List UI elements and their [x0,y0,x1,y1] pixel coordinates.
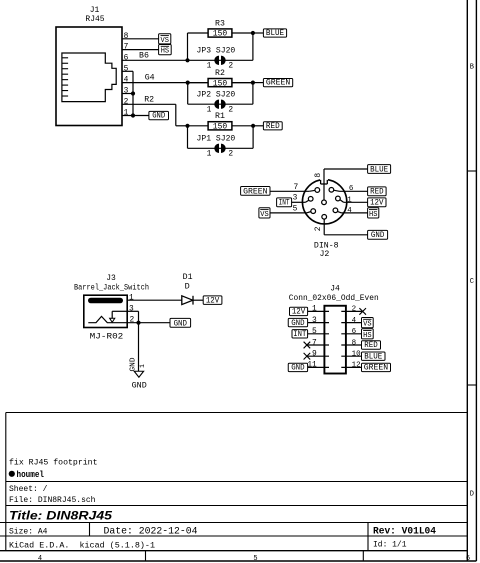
svg-text:12V: 12V [206,296,220,305]
svg-text:1: 1 [207,106,212,115]
svg-text:D: D [470,491,474,499]
svg-text:GND: GND [291,364,305,373]
svg-text:2: 2 [314,226,323,231]
svg-text:C: C [470,278,474,286]
svg-text:GND: GND [291,319,305,328]
svg-text:1: 1 [129,294,134,303]
svg-text:6: 6 [124,53,129,62]
svg-text:7: 7 [124,43,129,52]
svg-text:RJ45: RJ45 [85,14,104,24]
svg-text:G4: G4 [145,73,155,83]
svg-text:10: 10 [352,351,362,359]
svg-text:6: 6 [352,328,357,336]
svg-text:1: 1 [139,364,146,368]
svg-text:11: 11 [307,361,317,370]
svg-text:Size: A4: Size: A4 [9,526,48,536]
svg-text:VS: VS [260,211,269,219]
svg-text:1: 1 [207,62,212,71]
svg-text:GND: GND [129,358,137,372]
svg-text:Rev: V01L04: Rev: V01L04 [373,525,436,536]
svg-text:Date: 2022-12-04: Date: 2022-12-04 [104,525,198,537]
svg-text:6: 6 [466,555,470,563]
svg-text:6: 6 [349,185,354,193]
svg-text:BLUE: BLUE [266,29,284,38]
svg-text:B: B [470,63,474,71]
svg-text:GND: GND [152,112,165,121]
svg-text:2: 2 [124,97,129,106]
svg-text:9: 9 [312,350,317,359]
svg-text:INT: INT [279,199,290,208]
svg-text:R3: R3 [215,18,225,28]
svg-text:D1: D1 [183,272,193,282]
svg-text:150: 150 [213,29,227,39]
svg-text:GND: GND [174,319,188,328]
svg-text:GND: GND [132,380,147,390]
svg-text:4: 4 [124,76,129,85]
svg-text:5: 5 [293,204,298,213]
svg-text:8: 8 [352,339,357,347]
svg-text:2: 2 [228,150,233,159]
svg-text:fix RJ45 footprint: fix RJ45 footprint [9,458,98,468]
svg-text:MJ-R02: MJ-R02 [90,331,124,341]
svg-text:HS: HS [161,48,170,56]
svg-text:Barrel_Jack_Switch: Barrel_Jack_Switch [74,283,149,293]
svg-text:5: 5 [253,555,257,563]
svg-text:5: 5 [312,327,317,336]
svg-text:4: 4 [347,207,352,215]
svg-text:JP2 SJ20: JP2 SJ20 [197,90,236,100]
svg-text:12V: 12V [292,308,306,317]
svg-text:JP3 SJ20: JP3 SJ20 [197,46,236,56]
svg-text:GREEN: GREEN [243,187,268,196]
svg-text:1: 1 [207,150,212,159]
svg-text:Conn_02x06_Odd_Even: Conn_02x06_Odd_Even [289,293,379,303]
svg-text:RED: RED [370,188,384,197]
svg-text:J4: J4 [330,283,340,293]
svg-text:R1: R1 [215,111,225,121]
svg-text:4: 4 [38,555,42,563]
svg-text:GREEN: GREEN [364,364,389,373]
svg-text:5: 5 [124,64,129,73]
svg-text:VS: VS [161,37,170,45]
svg-text:1: 1 [347,197,352,205]
svg-text:150: 150 [213,78,227,88]
svg-text:BLUE: BLUE [370,165,388,174]
svg-text:GREEN: GREEN [266,79,291,88]
svg-text:RED: RED [364,341,378,350]
svg-text:J3: J3 [106,273,116,283]
svg-text:150: 150 [213,122,227,132]
svg-text:Title: DIN8RJ45: Title: DIN8RJ45 [9,509,112,523]
svg-text:R2: R2 [215,68,225,78]
svg-text:2: 2 [130,315,135,324]
svg-text:KiCad E.D.A. kicad (5.1.8)-1: KiCad E.D.A. kicad (5.1.8)-1 [9,540,155,550]
svg-text:Id: 1/1: Id: 1/1 [373,540,407,550]
svg-text:Sheet: /: Sheet: / [9,484,48,494]
svg-text:D: D [185,281,190,291]
svg-text:3: 3 [124,87,129,96]
svg-text:B6: B6 [139,51,149,61]
svg-text:HS: HS [363,332,372,340]
svg-text:2: 2 [352,306,357,314]
svg-text:VS: VS [363,321,372,329]
svg-text:12: 12 [352,362,361,370]
svg-text:JP1 SJ20: JP1 SJ20 [197,134,236,144]
svg-text:1: 1 [312,305,317,314]
svg-text:8: 8 [124,32,129,41]
svg-text:7: 7 [312,338,317,347]
svg-text:2: 2 [228,62,233,71]
svg-text:3: 3 [312,316,317,325]
svg-text:4: 4 [352,317,357,325]
svg-text:7: 7 [293,183,298,192]
svg-text:8: 8 [314,173,323,178]
svg-text:3: 3 [129,305,134,314]
svg-text:GND: GND [371,231,385,240]
svg-text:12V: 12V [370,199,384,208]
svg-text:INT: INT [293,330,306,339]
svg-text:File: DIN8RJ45.sch: File: DIN8RJ45.sch [9,495,96,505]
svg-text:3: 3 [293,194,298,203]
svg-text:2: 2 [228,106,233,115]
svg-text:RED: RED [266,122,280,131]
svg-text:BLUE: BLUE [364,352,382,361]
svg-text:HS: HS [369,211,378,219]
svg-text:J2: J2 [319,249,329,259]
svg-text:houmel: houmel [17,470,45,480]
svg-text:R2: R2 [144,95,154,105]
